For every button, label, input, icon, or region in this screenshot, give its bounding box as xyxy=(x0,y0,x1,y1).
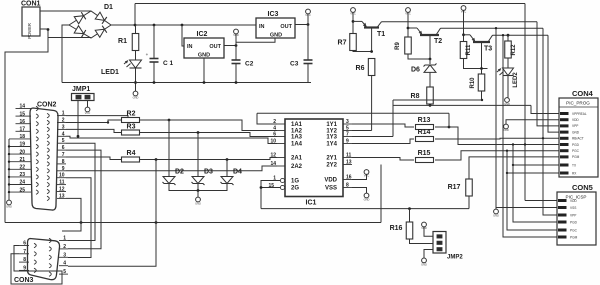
svg-text:11: 11 xyxy=(346,152,352,158)
svg-text:2: 2 xyxy=(63,244,66,250)
junction 1G/2G xyxy=(260,186,263,189)
ground flag below JMP2 xyxy=(422,258,427,263)
junction CON2 pin20 bus xyxy=(8,153,10,155)
power flag VCC above IC3 OUT xyxy=(307,14,309,25)
svg-text:GND: GND xyxy=(493,214,499,218)
connector CON1 (POWER) xyxy=(22,7,40,36)
svg-text:8: 8 xyxy=(346,182,349,188)
junction diode bus xyxy=(197,189,200,192)
svg-text:GND: GND xyxy=(504,102,510,106)
junction IC2 IN drop xyxy=(181,24,184,27)
resistor R14 xyxy=(416,137,434,142)
resistor R15 xyxy=(416,158,434,163)
wire T1 collector bus down to CON4 row3 xyxy=(537,22,559,126)
svg-text:PGD: PGD xyxy=(572,143,580,147)
junction R13 row with rail bus xyxy=(524,143,526,145)
wire R8 bottom to mid bus xyxy=(429,104,431,105)
svg-text:VDD: VDD xyxy=(421,226,427,230)
junction D4 top xyxy=(226,158,229,161)
wire JMP2 top pin to power flag xyxy=(424,227,433,236)
wire JMP2 bottom pin to ground xyxy=(424,250,433,259)
connector CON2 DB25 body xyxy=(30,108,58,210)
junction CON2 pin23 bus xyxy=(8,176,10,178)
diode bridge D1 xyxy=(69,11,111,38)
svg-text:VPP: VPP xyxy=(572,124,578,128)
junction D3 top xyxy=(197,131,200,134)
resistor R9 xyxy=(405,37,412,54)
IC1 1G 2G input bubbles and wires xyxy=(280,178,284,182)
wire R7 bottom to base node xyxy=(353,51,372,52)
wire jog x393 xyxy=(392,100,394,135)
resistor R2 xyxy=(122,118,140,123)
svg-text:13: 13 xyxy=(346,159,352,165)
ground flag below LED1 xyxy=(133,91,138,96)
svg-text:2A2: 2A2 xyxy=(291,164,303,170)
junction R2 feed xyxy=(107,121,109,123)
capacitor C1 xyxy=(153,25,155,59)
svg-text:R17: R17 xyxy=(448,184,461,191)
svg-text:VCC: VCC xyxy=(364,174,370,178)
junction CON2 pin21 bus xyxy=(8,161,10,163)
resistor R8 xyxy=(427,87,434,104)
wire CON4 row9 TX xyxy=(513,164,559,166)
svg-text:1: 1 xyxy=(63,236,66,242)
svg-text:15: 15 xyxy=(268,183,274,189)
CON4 pin pads and labels xyxy=(560,112,587,176)
wire R6 bottom down to IC1 pin5 row xyxy=(371,76,373,131)
resistor R3 xyxy=(122,130,140,135)
svg-text:GND: GND xyxy=(572,130,580,134)
svg-text:13: 13 xyxy=(59,193,65,199)
svg-text:24: 24 xyxy=(19,180,25,186)
svg-text:GND: GND xyxy=(364,198,370,202)
junction T3 emitter node xyxy=(462,33,465,36)
wire IC1 pin5 to R6 xyxy=(352,130,372,132)
zener diode D3 xyxy=(192,177,204,184)
svg-text:R3: R3 xyxy=(127,124,136,131)
svg-text:T3: T3 xyxy=(484,46,492,53)
svg-text:VCC: VCC xyxy=(85,111,91,115)
svg-text:1: 1 xyxy=(62,111,65,117)
resistor R11 xyxy=(460,42,467,59)
wire D4 top lead xyxy=(226,160,228,177)
svg-text:PGD: PGD xyxy=(570,220,578,224)
junction R16 top xyxy=(408,207,411,210)
wire mid bus y113 xyxy=(257,112,449,114)
svg-text:POWER: POWER xyxy=(27,23,32,39)
svg-text:8: 8 xyxy=(62,159,65,165)
buffer IC IC1 box xyxy=(285,119,343,197)
wire T2 emitter node xyxy=(407,12,409,38)
wire IC3 OUT node xyxy=(295,24,308,26)
svg-text:T2: T2 xyxy=(434,38,442,45)
svg-text:2: 2 xyxy=(62,118,65,124)
zener diode D6 xyxy=(429,59,431,64)
svg-text:12: 12 xyxy=(59,187,65,193)
junction R14 row with T2 bus xyxy=(542,137,544,139)
svg-text:R14: R14 xyxy=(418,129,431,136)
ground flag diodes xyxy=(197,191,199,198)
svg-text:18: 18 xyxy=(19,134,25,140)
zener diode D4 xyxy=(221,177,233,184)
node bridge DC+ junction xyxy=(134,24,137,27)
svg-text:6: 6 xyxy=(23,241,26,247)
svg-text:VDD: VDD xyxy=(572,118,579,122)
top rail wire xyxy=(135,3,525,5)
transistor T2 (PNP) xyxy=(408,28,441,35)
wire bus x513 down to CON5 PGD xyxy=(513,145,557,223)
wire rail bus to CON5 VDD xyxy=(525,200,557,202)
svg-text:R8: R8 xyxy=(411,93,420,100)
junction CON2 pin19 bus xyxy=(8,145,10,147)
wire CON2 pin2 to R2 xyxy=(66,120,121,123)
junction IC3 OUT xyxy=(307,23,310,26)
junction R13 node xyxy=(448,126,451,129)
wire JMP1 pin1 down to CON2 pin4 row xyxy=(77,101,79,137)
wire R10 bottom xyxy=(481,91,483,100)
svg-text:C2: C2 xyxy=(245,61,254,68)
svg-text:1: 1 xyxy=(273,175,276,181)
svg-text:IN: IN xyxy=(259,24,265,30)
svg-text:R1: R1 xyxy=(118,38,127,45)
wire bridge output to R1 node xyxy=(111,24,135,26)
wire T2 collector bus down to CON5 VPP xyxy=(543,28,557,215)
svg-text:PGM: PGM xyxy=(570,235,578,239)
wire long net CON2 area to IC1 pin13 (bottom run) xyxy=(5,222,381,224)
junction C1 bottom rail xyxy=(153,81,156,84)
svg-text:JMP1: JMP1 xyxy=(72,86,90,93)
svg-text:CON4: CON4 xyxy=(572,89,594,98)
wire T3 collector bus down to CON4 row4 xyxy=(548,35,559,132)
svg-text:VPPREAL: VPPREAL xyxy=(572,112,587,116)
CON2 right pin stubs and numbers xyxy=(57,116,66,199)
svg-text:10: 10 xyxy=(270,138,276,144)
junction IC2 OUT xyxy=(235,44,238,47)
resistor R4 xyxy=(122,157,140,162)
junction R8 bottom xyxy=(429,104,432,107)
connector CON4 box xyxy=(559,98,598,177)
svg-text:R10: R10 xyxy=(470,77,476,89)
wire T3 base down xyxy=(481,42,483,69)
ground flag at IC1 VSS pin8 xyxy=(352,188,367,194)
svg-text:JMP2: JMP2 xyxy=(447,255,463,261)
wire T3 collector box wire down to CON5 PGM xyxy=(503,35,557,237)
svg-text:D3: D3 xyxy=(204,169,213,176)
wire CON1 pin2 to bridge bottom xyxy=(48,29,91,38)
bottom rail wire (GND rail) xyxy=(62,82,311,84)
wire LED1 to rail and ground xyxy=(135,68,137,92)
wire R4 to D4 and IC1 pin12 xyxy=(140,158,278,160)
svg-text:+: + xyxy=(146,52,149,57)
wire IC1 enable node to bottom row xyxy=(261,208,469,210)
CON3 pin arcs xyxy=(34,238,51,276)
svg-text:16: 16 xyxy=(19,119,25,125)
IC1 left pin stubs xyxy=(277,124,285,166)
wire IC1 pin7 to jog xyxy=(352,136,393,138)
svg-text:17: 17 xyxy=(19,127,25,133)
power flag at JMP2 xyxy=(422,222,427,227)
svg-text:R11: R11 xyxy=(466,44,472,55)
CON3 left pin stubs xyxy=(19,246,29,271)
svg-text:4: 4 xyxy=(63,261,66,267)
svg-text:14: 14 xyxy=(19,104,25,110)
wire R9 bottom to base node xyxy=(408,54,430,59)
svg-text:5: 5 xyxy=(62,138,65,144)
CON3 right pin stubs xyxy=(59,241,68,275)
junction CON1 pin2 xyxy=(47,28,50,31)
wire T2 base down xyxy=(429,35,431,59)
power flag VDD above IC2 OUT xyxy=(235,34,237,46)
wire IC3 GND to C2 node xyxy=(236,38,275,42)
resistor R17 xyxy=(466,179,473,196)
svg-text:9: 9 xyxy=(346,138,349,144)
svg-text:1Y4: 1Y4 xyxy=(326,142,337,148)
svg-text:D6: D6 xyxy=(411,67,420,74)
svg-text:19: 19 xyxy=(19,142,25,148)
svg-text:1Y3: 1Y3 xyxy=(326,135,337,141)
svg-text:7: 7 xyxy=(23,249,26,255)
svg-text:3: 3 xyxy=(62,124,65,130)
svg-text:12: 12 xyxy=(270,152,276,158)
junction T2 base / D6 xyxy=(429,58,432,61)
junction T2 emitter node xyxy=(407,27,410,30)
wire CON2 pin1 to R2 node xyxy=(66,116,128,120)
svg-text:VSS: VSS xyxy=(325,186,337,192)
power flag at JMP1 xyxy=(85,107,90,112)
resistor R7 xyxy=(350,34,357,51)
svg-text:GND: GND xyxy=(133,96,139,100)
wire R10 bottom run xyxy=(393,99,482,101)
wire D2 top lead xyxy=(168,120,170,177)
svg-text:11: 11 xyxy=(59,180,65,186)
svg-text:IC1: IC1 xyxy=(306,200,317,207)
svg-text:IC3: IC3 xyxy=(268,11,279,18)
svg-text:9: 9 xyxy=(62,166,65,172)
svg-text:D2: D2 xyxy=(175,169,184,176)
wire T1 collector to right bus xyxy=(382,21,538,23)
svg-text:2: 2 xyxy=(273,119,276,125)
ground flag right side xyxy=(494,209,499,214)
svg-text:4: 4 xyxy=(62,131,65,137)
svg-text:LED2: LED2 xyxy=(513,72,519,88)
junction C2 bottom rail xyxy=(235,81,238,84)
wire IC2 GND to rail xyxy=(203,58,205,83)
wire T2 collector box wire down to right ground xyxy=(495,28,497,209)
svg-text:C3: C3 xyxy=(290,61,299,68)
svg-text:R2: R2 xyxy=(127,111,136,118)
power flag above T3 xyxy=(461,6,466,11)
wire T1 base down xyxy=(371,28,373,52)
junction D2 top xyxy=(168,119,171,122)
wire R3 to D3 and IC1 pin6 xyxy=(140,133,278,137)
svg-text:LED1: LED1 xyxy=(101,69,119,76)
wire IC1 pin3 to R13 xyxy=(352,124,414,127)
IC1 right pin stubs xyxy=(343,124,352,188)
zener diode D2 xyxy=(163,177,175,184)
junction T1 emitter node xyxy=(352,20,355,23)
svg-text:8: 8 xyxy=(23,257,26,263)
wire CON3 pin6 loop xyxy=(11,246,62,285)
wire right gnd to CON5 VSS xyxy=(496,207,557,209)
svg-text:6: 6 xyxy=(273,131,276,137)
svg-text:GND: GND xyxy=(198,53,210,59)
LED1 xyxy=(130,60,142,68)
wire CON4 row10 RX xyxy=(507,172,559,174)
jumper JMP2 xyxy=(433,232,446,254)
junction R10/R8 run xyxy=(481,99,483,101)
wire IC1 pin9 to R14 xyxy=(352,139,414,144)
CON2 pin arcs xyxy=(36,106,49,200)
svg-text:VSS: VSS xyxy=(570,206,576,210)
svg-text:25: 25 xyxy=(19,187,25,193)
svg-text:2Y2: 2Y2 xyxy=(326,163,337,169)
jumper JMP1 xyxy=(72,94,95,101)
svg-text:VDD: VDD xyxy=(570,199,577,203)
svg-text:R15: R15 xyxy=(418,150,431,157)
wire R14 to CON4 row5 xyxy=(435,137,559,140)
svg-text:D4: D4 xyxy=(233,169,242,176)
svg-text:D1: D1 xyxy=(104,4,113,11)
wire CON2 pin5 down to CON3 pin1 xyxy=(66,143,95,240)
resistor R12 xyxy=(507,35,509,41)
wire CON2 pin3 to R3 xyxy=(66,129,121,132)
wire T2 collector to right bus xyxy=(441,27,544,29)
wire DC+ to C1 and IC2 IN xyxy=(135,24,256,26)
svg-text:7: 7 xyxy=(346,131,349,137)
svg-text:1G: 1G xyxy=(291,179,299,185)
resistor R6 xyxy=(368,59,375,76)
wire y113 bus to IC1 pin2 xyxy=(257,113,277,124)
svg-text:1A3: 1A3 xyxy=(291,135,303,141)
svg-text:21: 21 xyxy=(19,157,25,163)
connector CON5 box xyxy=(557,192,596,245)
svg-text:RB/ACT: RB/ACT xyxy=(572,137,584,141)
svg-text:14: 14 xyxy=(270,161,276,167)
svg-text:PGC: PGC xyxy=(572,149,580,153)
resistor R10 xyxy=(481,69,483,75)
svg-text:22: 22 xyxy=(19,165,25,171)
svg-text:1A4: 1A4 xyxy=(291,142,303,148)
wire D6 to R8 xyxy=(429,73,431,88)
svg-text:GND: GND xyxy=(270,33,282,39)
wire R13 node up to y113 bus xyxy=(448,113,450,127)
svg-text:5: 5 xyxy=(63,269,66,275)
svg-text:2A1: 2A1 xyxy=(291,156,303,162)
wire D3 top lead xyxy=(197,133,199,177)
wire CON2 pin9 to IC1 pin14 (2A2) xyxy=(66,166,277,171)
svg-text:GND: GND xyxy=(6,205,12,209)
svg-text:1A1: 1A1 xyxy=(291,122,303,128)
wire T3 collector to right bus xyxy=(493,34,549,36)
svg-text:1Y1: 1Y1 xyxy=(326,122,337,128)
svg-text:VCC: VCC xyxy=(305,13,311,17)
junction C1 top xyxy=(153,24,156,27)
svg-text:OUT: OUT xyxy=(280,24,292,30)
svg-text:IC2: IC2 xyxy=(197,31,208,38)
svg-text:20: 20 xyxy=(19,149,25,155)
wire LED2 to ground xyxy=(507,76,509,98)
wire R16 bottom to JMP2 middle xyxy=(410,239,434,244)
wire bottom run up to IC1 pin 13 xyxy=(380,165,382,223)
svg-text:GND: GND xyxy=(421,263,427,267)
svg-text:R12: R12 xyxy=(511,44,517,56)
CON2 left pin stubs and numbers 14-25 xyxy=(9,109,31,193)
svg-text:23: 23 xyxy=(19,172,25,178)
junction T1 base/R6 xyxy=(370,50,373,53)
wire R8 bus down to CON4 row1 xyxy=(531,105,559,113)
svg-text:3: 3 xyxy=(346,119,349,125)
wire CON2 pin7 to R4 xyxy=(66,157,121,160)
svg-text:10: 10 xyxy=(59,173,65,179)
wire T3 emitter node xyxy=(463,10,465,42)
wire drop to IC2 IN xyxy=(182,25,184,46)
wire R15 to CON4 row7 xyxy=(435,151,559,160)
svg-text:GND: GND xyxy=(195,202,201,206)
wire DC+ node up to top rail xyxy=(134,4,136,26)
power flag at IC1 VDD pin16 xyxy=(352,175,367,180)
wire R17 bottom xyxy=(468,196,470,209)
svg-text:6: 6 xyxy=(62,145,65,151)
svg-text:R13: R13 xyxy=(418,117,431,124)
CON2 ground bus xyxy=(8,139,10,200)
junction CON2 pin22 bus xyxy=(8,168,10,170)
svg-text:IN: IN xyxy=(187,44,193,50)
svg-text:PGC: PGC xyxy=(570,228,578,232)
wire JMP1 pin2 to power flag xyxy=(87,101,89,108)
connector CON3 DB9 body xyxy=(28,239,60,280)
svg-text:R7: R7 xyxy=(338,40,347,47)
wire CON2 pin13 down to bottom run xyxy=(62,198,81,231)
wire IC1 pin11 to R15 xyxy=(352,158,414,161)
capacitor C3 xyxy=(307,25,309,61)
wire R13 node to CON4 PGD row xyxy=(449,127,559,145)
wire top rail down right side xyxy=(524,4,526,201)
svg-text:C 1: C 1 xyxy=(163,60,174,67)
CON5 pin pads and labels xyxy=(558,199,578,240)
svg-text:2G: 2G xyxy=(291,186,299,192)
svg-text:R4: R4 xyxy=(127,150,136,157)
wire mid bus y105 xyxy=(393,104,531,106)
junction R2 left node xyxy=(127,119,129,121)
junction bottom run x81 xyxy=(80,221,83,224)
wire bridge left vertex to bottom rail xyxy=(62,25,69,83)
IC1 pin names xyxy=(291,122,338,192)
power flag above T1 xyxy=(351,8,356,13)
wire bus x507 down to CON5 PGC xyxy=(507,151,557,230)
svg-text:R6: R6 xyxy=(356,65,365,72)
wire CON2 pin10 down to CON3 pin3 xyxy=(66,178,91,258)
svg-text:R16: R16 xyxy=(390,225,403,232)
resistor R13 xyxy=(416,125,434,130)
wire CON1 pin2 branch down-left xyxy=(5,31,48,223)
svg-text:3: 3 xyxy=(63,252,66,258)
wire R12 to LED2 xyxy=(507,58,509,68)
junction R12 top xyxy=(507,34,510,37)
svg-text:OUT: OUT xyxy=(209,44,221,50)
junction R4 right / CON3 drop xyxy=(155,158,158,161)
svg-text:7: 7 xyxy=(62,152,65,158)
wire T1 emitter node xyxy=(352,12,354,33)
wire diode common bus xyxy=(169,184,227,191)
svg-text:CON5: CON5 xyxy=(572,183,593,192)
wire CON2 pin6 down to CON3 pin2 xyxy=(66,150,101,249)
ground flag CON2 bus xyxy=(7,200,12,205)
transistor T1 (PNP) xyxy=(353,21,382,27)
voltage regulator IC2 xyxy=(184,38,224,58)
junction CON2 pin25 bus xyxy=(8,191,10,193)
svg-text:PIC_PROG: PIC_PROG xyxy=(566,101,590,106)
junction IC2 GND rail xyxy=(203,81,206,84)
